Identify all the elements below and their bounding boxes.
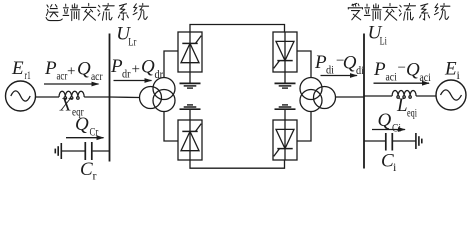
label Xeqr xyxy=(59,94,84,118)
svg-text:Lr: Lr xyxy=(128,34,136,48)
capacitor Ci xyxy=(386,133,393,151)
ground (above V4, inverted) xyxy=(275,105,296,120)
AC source Er1 xyxy=(6,81,36,111)
wire valve V4 to transformer T2 xyxy=(297,112,311,142)
svg-text:C: C xyxy=(80,159,93,180)
label Pacr+Qacr xyxy=(44,58,103,83)
svg-text:E: E xyxy=(444,59,457,80)
label QCr xyxy=(75,114,98,138)
label ULi xyxy=(368,23,388,48)
svg-text:Q: Q xyxy=(141,57,155,78)
bus ULr xyxy=(109,34,111,162)
arrow QCi xyxy=(372,129,405,131)
svg-text:acr: acr xyxy=(91,69,103,83)
svg-text:Li: Li xyxy=(380,34,388,48)
ground (above V3, inverted) xyxy=(180,105,201,120)
wire bus to inductor Leqi xyxy=(364,95,392,97)
label Pdi-Qdi xyxy=(314,52,365,77)
wire inductor to source Ei xyxy=(416,95,436,97)
wire T1 bottom winding to valve V3 xyxy=(164,112,178,142)
thyristor valve V1 (upper left) xyxy=(178,32,202,72)
wire source to inductor xyxy=(36,96,60,98)
arrow Pdr+Qdr xyxy=(114,80,152,82)
wire valve V2 to transformer T2 xyxy=(297,51,311,78)
label Er1 xyxy=(11,58,31,82)
label Leqi xyxy=(396,95,417,120)
svg-text:P: P xyxy=(44,58,57,79)
inductor Xeqr xyxy=(59,91,84,99)
svg-text:X: X xyxy=(59,94,73,115)
AC source Ei xyxy=(436,80,466,110)
svg-text:−: − xyxy=(398,60,406,76)
svg-text:aci: aci xyxy=(420,70,432,84)
wire ground to Cr xyxy=(61,150,84,152)
svg-text:Q: Q xyxy=(75,114,89,135)
svg-text:acr: acr xyxy=(57,69,68,83)
transformer T2 xyxy=(300,78,336,112)
label Ei xyxy=(444,59,461,82)
ground (below V1) xyxy=(180,72,201,88)
wire bus to Ci xyxy=(364,140,385,142)
arrow QCr xyxy=(66,137,104,139)
svg-text:+: + xyxy=(67,64,75,80)
wire Ci to ground xyxy=(393,140,416,142)
transformer T1 xyxy=(140,78,176,112)
svg-text:r1: r1 xyxy=(25,68,31,82)
label Pdr+Qdr xyxy=(110,56,163,81)
ground (below V2) xyxy=(275,72,296,88)
svg-text:Ci: Ci xyxy=(392,120,402,134)
svg-text:Q: Q xyxy=(77,59,91,80)
svg-text:Q: Q xyxy=(378,110,392,131)
thyristor valve V2 (upper right) xyxy=(273,32,297,72)
arrow Paci-Qaci xyxy=(374,82,430,84)
wire DC line top rail xyxy=(190,25,285,33)
label: receiving AC system title 受端交流系统 xyxy=(348,3,450,20)
svg-text:Q: Q xyxy=(406,59,420,80)
capacitor Cr xyxy=(85,142,92,160)
wire bus to transformer T1 xyxy=(110,96,141,99)
wire DC line bottom rail xyxy=(190,160,285,168)
svg-text:L: L xyxy=(396,95,408,116)
label Ci xyxy=(381,151,397,175)
svg-text:i: i xyxy=(393,160,397,174)
wire transformer T2 to bus ULi xyxy=(336,96,365,98)
wire Cr to bus xyxy=(93,150,110,152)
arrow Pdi-Qdi xyxy=(321,75,358,77)
svg-text:P: P xyxy=(373,59,386,80)
svg-text:eqi: eqi xyxy=(407,106,417,120)
svg-text:E: E xyxy=(11,58,24,79)
svg-text:r: r xyxy=(93,169,97,183)
thyristor valve V3 (lower left) xyxy=(178,120,202,160)
svg-text:Q: Q xyxy=(343,53,357,74)
ground (right of Ci, rotated) xyxy=(416,133,422,149)
bus ULi xyxy=(363,34,365,169)
svg-text:di: di xyxy=(326,63,335,77)
svg-text:+: + xyxy=(132,61,140,77)
label Cr xyxy=(80,159,97,183)
ground (left of Cr, rotated) xyxy=(55,143,61,159)
arrow Pacr+Qacr xyxy=(44,83,99,85)
svg-text:aci: aci xyxy=(386,69,398,83)
svg-text:dr: dr xyxy=(122,67,131,81)
label Paci-Qaci xyxy=(373,59,431,84)
label ULr xyxy=(116,23,136,48)
inductor Leqi xyxy=(392,91,416,99)
thyristor valve V4 (lower right) xyxy=(273,120,297,160)
svg-text:i: i xyxy=(457,68,461,82)
svg-text:Cr: Cr xyxy=(90,124,99,138)
label: sending AC system title 送端交流系统 xyxy=(46,3,149,20)
label QCi xyxy=(378,110,402,134)
wire T1 top winding to valve V1 xyxy=(164,51,178,78)
wire inductor to bus xyxy=(84,96,109,98)
